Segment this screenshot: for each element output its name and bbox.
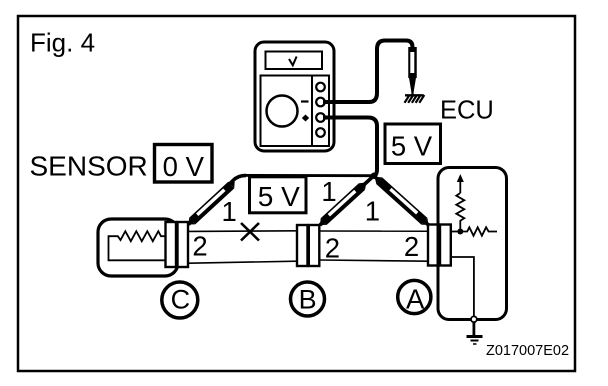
svg-text:C: C bbox=[171, 285, 191, 315]
wire probe to B pin1 bbox=[320, 176, 374, 225]
svg-text:2: 2 bbox=[192, 231, 207, 262]
node A bbox=[398, 280, 431, 313]
minus mark bbox=[301, 100, 309, 102]
node ECU junction bbox=[457, 229, 463, 235]
ECU box bbox=[438, 168, 507, 320]
voltage box 0 V at sensor bbox=[155, 145, 213, 183]
multimeter dial bbox=[267, 96, 298, 127]
wire C-B bottom bbox=[189, 261, 297, 263]
multimeter panel bbox=[261, 76, 330, 147]
svg-text:B: B bbox=[299, 284, 317, 314]
multimeter V1 body bbox=[255, 42, 334, 151]
svg-text:1: 1 bbox=[222, 196, 237, 227]
probe negative lead bbox=[408, 47, 417, 78]
resistor (sensor element) bbox=[109, 231, 166, 260]
connector B bbox=[297, 225, 319, 266]
resistor (pull-up) bbox=[456, 193, 464, 232]
wire negative lead bbox=[323, 41, 413, 103]
svg-text:Z017007E02: Z017007E02 bbox=[486, 343, 569, 359]
node B bbox=[291, 282, 325, 316]
wire probe to C pin1 bbox=[189, 175, 247, 224]
ground (probe) bbox=[405, 95, 425, 103]
wire sensor 1 bus (horizontal) bbox=[243, 174, 374, 177]
resistor (signal) bbox=[460, 227, 497, 235]
node junction bbox=[371, 173, 377, 179]
ground (ECU) bbox=[467, 335, 483, 338]
test probe at A pin 1 bbox=[379, 181, 424, 222]
multimeter jack 2 (negative) bbox=[316, 98, 325, 107]
svg-text:SENSOR: SENSOR bbox=[30, 151, 148, 182]
svg-text:1: 1 bbox=[365, 195, 380, 226]
svg-text:A: A bbox=[406, 284, 425, 315]
plus mark bbox=[302, 115, 309, 122]
svg-text:ECU: ECU bbox=[440, 96, 494, 124]
sensor body bbox=[98, 219, 178, 276]
multimeter jack divider bbox=[311, 76, 313, 147]
voltage box 5 V at ECU bbox=[385, 124, 441, 164]
multimeter display bbox=[266, 52, 323, 70]
wire A pin2 to ECU junction bbox=[451, 231, 460, 233]
wire A pin2 bottom to ground bbox=[451, 257, 474, 317]
wire C-B top bbox=[189, 230, 297, 233]
multimeter jack 4 bbox=[316, 128, 325, 137]
test probe at C pin 1 bbox=[192, 185, 231, 221]
svg-text:Fig. 4: Fig. 4 bbox=[30, 28, 95, 58]
svg-text:1: 1 bbox=[321, 176, 336, 207]
multimeter jack 1 bbox=[316, 83, 325, 92]
multimeter display V mark bbox=[289, 57, 297, 66]
voltage box 5 V at C pin1 bbox=[250, 177, 307, 213]
test probe at B pin 1 bbox=[324, 187, 362, 222]
svg-text:5 V: 5 V bbox=[391, 131, 433, 162]
power arrow bbox=[457, 174, 464, 182]
svg-text:2: 2 bbox=[404, 231, 419, 262]
connector C bbox=[166, 222, 189, 267]
wire positive lead bbox=[323, 118, 377, 176]
wire probe to A pin1 bbox=[374, 176, 429, 225]
wire B-A bottom bbox=[321, 260, 428, 261]
svg-text:5 V: 5 V bbox=[258, 181, 300, 212]
break mark X bbox=[241, 223, 259, 241]
node C bbox=[162, 282, 198, 318]
svg-text:2: 2 bbox=[325, 233, 340, 264]
connector A bbox=[428, 225, 451, 266]
multimeter jack 3 (positive) bbox=[316, 113, 325, 122]
svg-text:0 V: 0 V bbox=[163, 151, 205, 182]
wire B-A top bbox=[321, 230, 428, 232]
